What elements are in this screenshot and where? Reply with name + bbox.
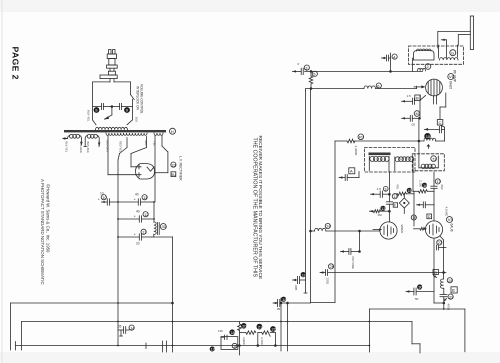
alignment point box E <box>451 287 457 293</box>
decoupling capacitor C14 on heater bus <box>117 325 135 337</box>
1st picture IF transformer T2 dashed box <box>365 148 416 173</box>
converter grid coil L10 (vertical) <box>424 133 436 148</box>
line bypass capacitor C1B <box>112 103 132 113</box>
grid coil L3 on AGC line <box>413 58 431 71</box>
svg-text:15: 15 <box>231 330 236 335</box>
svg-text:©Howard W. Sams & Co., Inc. 19: ©Howard W. Sams & Co., Inc. 1950 <box>46 184 51 253</box>
svg-text:BLK: BLK <box>135 117 139 122</box>
svg-text:47K: 47K <box>396 184 400 189</box>
heater bus wire (y=303) <box>11 303 174 350</box>
svg-text:17: 17 <box>211 348 215 352</box>
svg-text:10: 10 <box>426 134 431 139</box>
svg-text:+: + <box>134 233 136 237</box>
svg-text:2,200: 2,200 <box>419 180 423 187</box>
discriminator capacitor C29 <box>440 288 454 309</box>
svg-text:20: 20 <box>242 324 247 329</box>
compensating capacitor C17 (vertical) <box>431 172 444 191</box>
svg-text:13: 13 <box>381 207 385 211</box>
peaking coil L6 on grid line <box>364 83 381 89</box>
svg-text:C: C <box>439 120 442 125</box>
pilot lamp assembly box <box>210 329 238 352</box>
plate wire V3 to quad coil <box>440 236 445 279</box>
RF amplifier tube V1 (shielded) <box>414 79 442 104</box>
screen bypass capacitor C8 <box>402 111 420 127</box>
top scan band <box>0 0 500 12</box>
T1 secondary winding S1 (filament 6.3V) <box>66 134 82 144</box>
T3 coil former and loops <box>419 156 438 169</box>
RED plate lead to rectifier plate 1 <box>131 137 148 167</box>
svg-text:40: 40 <box>135 193 139 197</box>
svg-text:RED-GRN: RED-GRN <box>106 140 110 152</box>
svg-text:4.5 MC: 4.5 MC <box>445 207 449 218</box>
S1 left lead arrow BLK-YEL <box>62 137 69 153</box>
B+ distribution bus (y=321.5) <box>22 322 413 351</box>
svg-text:VIDEO: VIDEO <box>400 225 404 235</box>
svg-text:28: 28 <box>448 278 453 283</box>
junction dots sound return <box>369 308 445 346</box>
bleeder resistor R22 (horizontal) <box>258 326 277 346</box>
svg-text:INTERLOCK ON: INTERLOCK ON <box>136 86 140 111</box>
svg-text:G: G <box>451 50 454 55</box>
svg-text:1M: 1M <box>378 213 383 217</box>
junction dots filter network <box>117 201 155 238</box>
AGC blocking capacitor C3 <box>298 62 310 75</box>
svg-text:10: 10 <box>100 192 104 196</box>
5U4G tube designator circles <box>171 162 177 177</box>
grid leak resistor R13 with ground arrow <box>369 210 389 217</box>
svg-text:YEL: YEL <box>153 141 157 146</box>
coupling capacitor C18a with ground arrow <box>417 191 435 221</box>
sound takeoff box label G2 <box>433 270 439 278</box>
bottom scan band <box>0 352 500 363</box>
junction dot line caps <box>111 106 113 108</box>
antenna secondary coil L2 (former with bottom loops) <box>439 45 459 60</box>
svg-text:3,300Ω: 3,300Ω <box>354 146 358 157</box>
svg-text:B: B <box>416 96 419 101</box>
audio coupling capacitor C19 <box>293 272 307 291</box>
svg-text:+: + <box>98 198 100 202</box>
svg-text:BLK-YEL: BLK-YEL <box>87 110 91 122</box>
screen bypass capacitor C18 (mid) <box>273 297 311 311</box>
RF AMP label and designator <box>448 70 457 89</box>
svg-text:.005: .005 <box>294 285 298 291</box>
svg-text:16: 16 <box>423 183 428 188</box>
svg-text:RECEIVER MAKES IT POSSIBLE TO: RECEIVER MAKES IT POSSIBLE TO BRING YOU … <box>257 136 263 280</box>
B+ wire from rectifier to choke <box>153 202 155 222</box>
chassis ground arrow for line caps <box>104 107 112 120</box>
svg-text:RED: RED <box>144 140 148 146</box>
T1 secondary winding S4 (5V rectifier filament) <box>154 133 163 135</box>
YEL filament leads to rectifier <box>153 135 168 202</box>
interlock socket J1 <box>100 71 117 82</box>
terminal mark at core right end <box>170 128 176 134</box>
antenna matching arrow <box>441 39 446 58</box>
svg-text:+: + <box>134 198 136 202</box>
svg-text:.05: .05 <box>117 325 122 329</box>
T2 secondary coil <box>395 157 414 171</box>
svg-text:A PHOTOFACT STANDARD NOTATION: A PHOTOFACT STANDARD NOTATION SCHEMATIC <box>40 179 45 285</box>
svg-text:tf: tf <box>298 62 300 66</box>
svg-text:47pf: 47pf <box>440 184 444 190</box>
RED-GRN plate lead to rectifier plate 2 <box>106 135 136 174</box>
svg-text:BLK-YEL: BLK-YEL <box>65 142 69 153</box>
cathode bypass capacitor C7 with box label <box>402 94 426 104</box>
svg-text:1,5: 1,5 <box>377 187 382 191</box>
svg-text:22: 22 <box>272 327 277 332</box>
interlock box wiring <box>93 82 133 120</box>
svg-text:BLK-RED: BLK-RED <box>79 142 83 153</box>
svg-text:VOLUME CONTROL: VOLUME CONTROL <box>140 84 144 114</box>
svg-text:27: 27 <box>438 240 443 245</box>
B boost line (right long vertical) <box>444 309 465 352</box>
2nd picture IF transformer T3 dashed box <box>412 154 444 171</box>
grid feed wire (y=231) with junction <box>280 71 380 304</box>
svg-text:115: 115 <box>218 329 223 333</box>
junction dots on buses <box>117 302 288 346</box>
svg-text:A: A <box>350 169 353 174</box>
svg-text:16: 16 <box>233 345 237 349</box>
svg-text:BRN-BLK: BRN-BLK <box>86 142 90 154</box>
antenna primary coil L1 (former with top loops) <box>414 49 435 60</box>
AGC line wire (y=71) <box>293 70 423 72</box>
svg-text:26: 26 <box>330 264 335 269</box>
svg-text:13: 13 <box>142 230 147 235</box>
svg-text:6AU6: 6AU6 <box>450 224 454 232</box>
cathode bypass capacitor C30 with ground arrow <box>406 239 445 304</box>
svg-text:.05: .05 <box>276 307 281 311</box>
grid resistor R5 (vertical) <box>309 71 317 88</box>
series grid capacitor C13 in grid line <box>380 202 397 211</box>
vertical drop wires to buses (middle) <box>281 298 288 351</box>
svg-text:20: 20 <box>136 242 140 246</box>
svg-text:E: E <box>452 288 455 293</box>
svg-text:THE COOPERATION OF THE MANUFAC: THE COOPERATION OF THE MANUFACTURER OF T… <box>252 138 258 278</box>
filter electrolytic C2C <box>118 210 154 223</box>
T1 secondary winding S3 (HV plate winding) <box>106 133 147 135</box>
SOUND IF label and designator <box>447 217 454 232</box>
power transformer T1 laminated core <box>64 130 166 132</box>
svg-text:3,900: 3,900 <box>242 337 246 345</box>
svg-text:G: G <box>434 271 437 275</box>
svg-text:24: 24 <box>326 224 331 229</box>
svg-text:4,700: 4,700 <box>260 337 264 345</box>
svg-text:6AG5: 6AG5 <box>449 81 453 89</box>
coax link box label C <box>437 120 444 142</box>
off-page connector stubs through ground bus <box>146 341 167 352</box>
sound IF tube V3 <box>414 221 443 238</box>
svg-text:220Ω: 220Ω <box>326 278 330 285</box>
svg-text:RED-YEL: RED-YEL <box>119 141 123 153</box>
T2 powdered iron core <box>369 153 391 156</box>
B+ feed wire (y=141) <box>335 140 445 302</box>
svg-text:21: 21 <box>258 324 263 329</box>
tuner assembly dashed box <box>409 46 464 64</box>
plate load wire from V1 <box>440 93 446 120</box>
svg-text:L.V. RECTIFIER: L.V. RECTIFIER <box>179 156 183 181</box>
svg-text:BRN: BRN <box>97 142 101 148</box>
svg-text:R7: R7 <box>359 135 365 140</box>
svg-text:+: + <box>134 215 136 219</box>
video bias capacitor C26 <box>320 264 446 284</box>
tuner alignment circle G <box>450 50 456 56</box>
T1 secondary winding S2 <box>85 134 99 146</box>
sound takeoff box label D <box>427 214 432 219</box>
T2 primary coil <box>369 156 389 171</box>
svg-text:H: H <box>171 129 174 134</box>
peaking resistor R16 (horizontal) <box>413 171 434 226</box>
svg-text:29: 29 <box>449 294 454 299</box>
svg-text:10: 10 <box>102 195 107 200</box>
svg-text:.05: .05 <box>411 123 416 127</box>
svg-text:50: 50 <box>415 297 419 301</box>
bypass capacitor C4 with ground arrow (above AGC line) <box>382 53 398 71</box>
peaking coil L24 on grid feed <box>315 223 332 231</box>
S2 right lead arrow <box>97 142 101 148</box>
svg-text:F: F <box>394 204 396 208</box>
screen dropping resistor R7 3,300 ohm <box>347 134 365 156</box>
grid line wire (y=88.5) with corner at x=305.5 <box>304 86 417 293</box>
bleeder resistor R21 (horizontal) <box>239 324 263 347</box>
filter electrolytic C2D <box>118 229 152 245</box>
svg-text:PAGE 2: PAGE 2 <box>11 47 21 80</box>
quadrature coil L28 (sound transformer) <box>440 278 453 289</box>
junction dot grid line <box>310 88 312 90</box>
decoupling capacitor C27 on sound line <box>437 240 447 250</box>
RED-YEL center tap lead (B minus) <box>118 138 127 346</box>
filter electrolytic C2B <box>118 193 154 206</box>
choke output wire to B+ vertical <box>152 234 173 352</box>
svg-text:D: D <box>428 215 431 219</box>
svg-text:23: 23 <box>172 162 177 167</box>
contrast control capacitor C25 <box>341 230 361 269</box>
filter electrolytic C2A <box>98 192 118 206</box>
on-off switch SW1 (on volume control) <box>130 94 134 99</box>
junction dot heater bus at B+ vertical <box>172 302 174 304</box>
IF bypass capacitor C11 with box label <box>339 168 359 181</box>
power transformer T1 primary winding <box>93 120 133 130</box>
ground return bus (y=345.5) <box>16 342 421 354</box>
svg-text:18: 18 <box>282 297 287 302</box>
svg-text:15: 15 <box>408 188 413 193</box>
junction dot AGC at C4 <box>390 71 392 73</box>
line bypass capacitor C1A <box>93 103 112 113</box>
svg-text:40: 40 <box>136 210 140 214</box>
svg-text:19: 19 <box>302 272 307 277</box>
svg-text:1.5: 1.5 <box>407 94 412 98</box>
svg-text:5U: 5U <box>171 173 176 177</box>
svg-text:V3: V3 <box>448 217 454 222</box>
svg-text:M: M <box>416 111 419 116</box>
detector load resistor R14 (horizontal) <box>392 184 414 199</box>
svg-text:14: 14 <box>130 325 135 330</box>
audio output return wire (y=309) <box>369 309 443 352</box>
rectifier tube V9 5U4G envelope <box>136 164 155 179</box>
second grid line vertical (x=310.5) <box>310 89 312 303</box>
svg-text:30: 30 <box>162 224 167 229</box>
test point circle near video tube <box>411 215 417 220</box>
filter choke L30 <box>154 222 167 235</box>
cathode line from V1 down to IF transformer <box>419 96 421 156</box>
svg-text:PICTURE: PICTURE <box>351 257 355 269</box>
antenna <box>438 16 474 50</box>
video detector diode M1 (crystal) <box>399 194 409 214</box>
svg-text:19: 19 <box>412 215 417 220</box>
svg-text:30: 30 <box>418 285 423 290</box>
voltage divider resistor R20 (vertical) <box>238 322 248 356</box>
svg-text:3: 3 <box>384 187 386 191</box>
S1 right lead arrow GRN <box>79 142 83 153</box>
S2 left lead tick <box>84 142 90 154</box>
AC plug P1 <box>107 50 118 72</box>
svg-text:T3: T3 <box>432 157 436 161</box>
video amplifier tube V2 <box>373 222 404 239</box>
left page edge line <box>2 0 3 363</box>
IF grid capacitor C12 with designator <box>371 186 390 197</box>
svg-text:12: 12 <box>144 212 149 217</box>
coupling capacitor C9 <box>424 126 444 132</box>
wire T2 secondary down to video IF tube <box>389 172 391 223</box>
